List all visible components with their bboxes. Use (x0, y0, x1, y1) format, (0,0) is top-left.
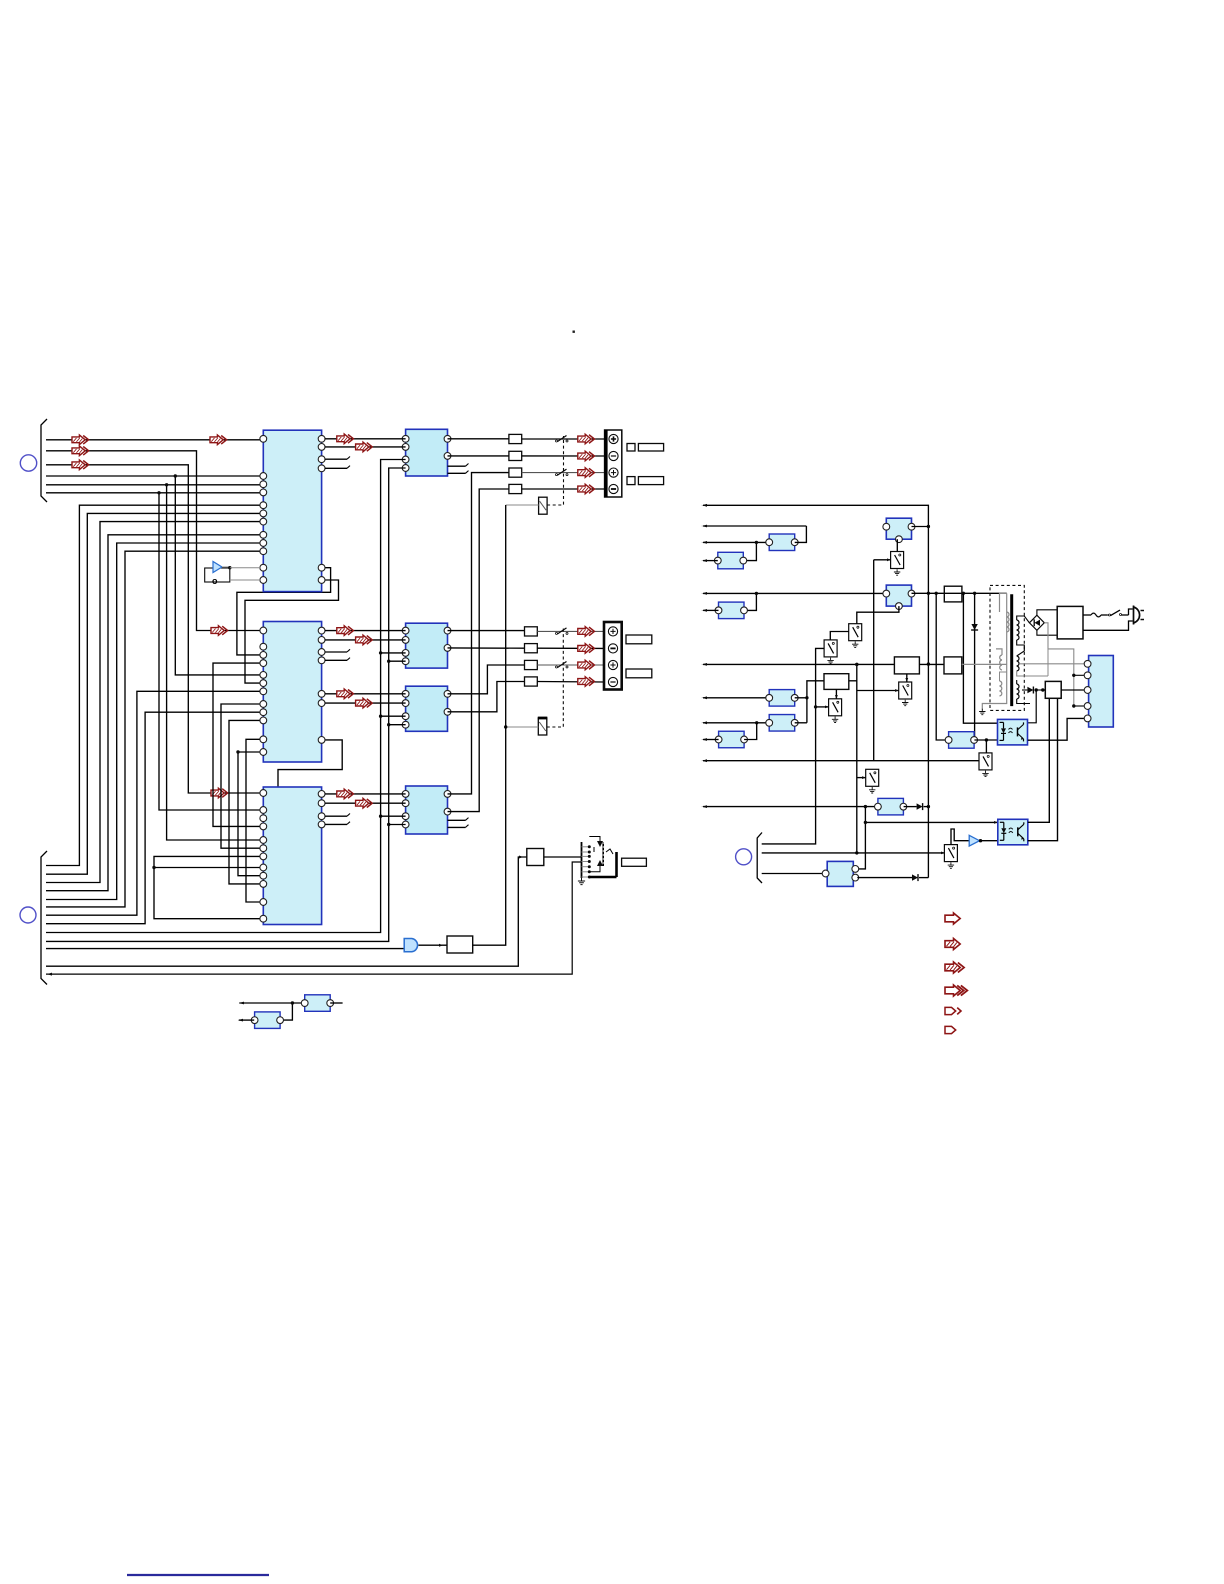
signal arrow a42 (356, 798, 373, 808)
mesh wire m1 (237, 568, 331, 655)
switch S1b (556, 469, 569, 476)
speaker terminal block J2 (604, 622, 622, 690)
bus wire n2 (46, 513, 263, 874)
transistor Q5 (829, 699, 842, 723)
mesh wire m10 (154, 856, 263, 918)
wire A3 out2 (448, 682, 525, 712)
power amp A4 (402, 786, 468, 834)
connector CN13 (715, 602, 747, 619)
IC U3 (260, 787, 325, 925)
wire FB24-term (537, 681, 604, 684)
mesh wire m8 (246, 739, 263, 902)
ferrite FB14 (509, 484, 522, 493)
signal arrow a12 (356, 442, 373, 452)
transistor Q6 (979, 753, 992, 777)
optocoupler PC1 (998, 719, 1028, 745)
wire CN16c r (744, 723, 757, 740)
signal arrow a32 (356, 698, 373, 708)
ps wire bw3 (762, 873, 826, 875)
ps wire p8 (Q6 base) (702, 759, 979, 762)
wire w2 (46, 451, 263, 631)
ps box F3 (824, 674, 849, 690)
wire A2 out1 (448, 630, 525, 632)
power amp A3 (402, 686, 451, 731)
IC U2 (260, 622, 325, 763)
driver box K1 (447, 936, 473, 953)
mesh wire m4 (213, 663, 263, 826)
signal arrow a21 (337, 626, 354, 636)
wire K1 out (473, 505, 506, 945)
wire w4 (46, 475, 263, 477)
net v857 (855, 664, 858, 854)
legend arrow type4 (945, 985, 967, 996)
wire U2-A3 ch2 (325, 702, 406, 704)
mesh wire m7 (236, 750, 263, 875)
svg-text:o: o (212, 576, 218, 586)
wire w6 (46, 492, 263, 494)
wire L1 stub (238, 1019, 254, 1022)
wire BD1-filter bot (1037, 630, 1057, 635)
signal arrow IC2 in (211, 626, 228, 636)
wire CN14 b-Q1 (896, 539, 898, 551)
wire L2-L1 (280, 1001, 294, 1020)
wire PC2-reg1 (1028, 698, 1050, 822)
wire w6 branch (157, 491, 263, 810)
wire FB12-term (522, 455, 605, 457)
wire CN17-O1 (974, 739, 997, 741)
wire U2-A2 ch1 (325, 630, 406, 632)
relay RY2 dashes (547, 628, 564, 727)
page dot (573, 331, 575, 333)
wire w1 (46, 439, 263, 441)
diode D4 (1022, 687, 1045, 694)
wire w5 (46, 484, 263, 486)
transistor Q1 (891, 552, 904, 576)
ferrite FB11 (509, 434, 522, 443)
legend arrow type5 (945, 1007, 961, 1014)
transformer core (1010, 594, 1013, 706)
net v865 (853, 807, 998, 869)
relay RY2 coil wire (504, 725, 538, 728)
wire Q1 base (874, 558, 891, 561)
bus wire n3 (46, 522, 263, 883)
connector CN20 (5pin) (1084, 656, 1113, 728)
input bus bracket CN1 (41, 419, 47, 502)
signal arrow a41 (337, 789, 354, 799)
power switch SW1 (1107, 610, 1129, 616)
wire CN15r-Q6 junction (985, 738, 988, 753)
wire BD1-filter top (1037, 610, 1057, 615)
wire fuse F1 (1083, 613, 1107, 617)
wire CN16 r (795, 681, 824, 723)
wire F3 r (849, 663, 859, 681)
transistor Q8 (866, 769, 879, 793)
net v963 (963, 593, 999, 723)
connector CN19 (4pin) (822, 861, 859, 886)
wire AND out (418, 944, 447, 947)
wire Q5 base (814, 705, 829, 708)
speaker arrow t13 (578, 468, 595, 478)
power amp A1 (402, 429, 468, 476)
wire Q4 base (857, 689, 899, 692)
transistor Q2 (849, 624, 862, 648)
relay RY1 dashes (547, 436, 563, 505)
connector CN12 (714, 552, 746, 569)
noise filter box NF1 (1057, 606, 1083, 639)
signal arrow w3 (72, 460, 89, 470)
wire Q2 base (830, 632, 848, 640)
ps wire p7 (702, 696, 769, 699)
speaker arrow t14 (578, 484, 595, 494)
speaker terminal block J1 (605, 430, 622, 497)
speaker arrow t12 (578, 451, 595, 461)
ps box F1 (894, 657, 919, 674)
mesh wire m2 (245, 580, 339, 683)
wire FB22-term (537, 647, 604, 649)
connector CN11 (766, 534, 798, 551)
IC U1 nc stubs (325, 457, 350, 469)
wire FB13-term (522, 472, 605, 474)
footer rule (127, 1574, 269, 1576)
ps wire p2 (702, 525, 807, 528)
connector CN17 (945, 732, 977, 749)
wire w966 (46, 856, 527, 967)
IC U2 nc stubs (325, 649, 350, 660)
wire PC2-reg2 (1028, 698, 1058, 840)
ps box F0 (944, 586, 962, 602)
speaker arrow t21 (578, 627, 595, 637)
ferrite FB13 (509, 468, 522, 477)
connector CN16c (715, 731, 747, 748)
off-page connector circle B (20, 907, 36, 923)
legend arrow type3 (945, 962, 964, 973)
wire AND in1 (46, 948, 404, 950)
ps wire p6 (702, 663, 895, 666)
mesh wire m5 (221, 704, 263, 848)
ps wire p5 (702, 592, 886, 595)
wire CN15 b (857, 606, 899, 624)
ferrite FB21 (525, 627, 538, 636)
wire D4-PC1 (1028, 690, 1036, 723)
link block L1 (251, 1012, 283, 1029)
power amp A2 (402, 623, 451, 668)
wire link1 (239, 1002, 305, 1005)
wire B3 drop (744, 592, 758, 611)
wire A4 out1 (448, 473, 509, 794)
wire CN19 rb + diode D3 (857, 874, 928, 881)
ferrite FB22 (525, 644, 538, 653)
terminal J1 labels (627, 444, 664, 485)
wire PC1 pin5 (1028, 717, 1088, 740)
signal arrow w1b (210, 435, 227, 445)
wire Q8 base (857, 776, 866, 779)
link block L2 (301, 995, 333, 1012)
driver box K2 (527, 849, 544, 866)
wire A1 out1 (448, 438, 509, 440)
net vB (936, 593, 948, 740)
connector CN18 (875, 798, 907, 815)
wire K2-jack (544, 856, 582, 858)
wire CN11 l drop (745, 541, 759, 561)
transistor Q3 (824, 640, 837, 664)
wire U1-A1 ch2 (325, 446, 406, 448)
buffer B2 (969, 835, 998, 846)
speaker arrow t24 (578, 677, 595, 687)
ps bus bracket CN3 (757, 833, 762, 884)
bus wire n4 (46, 535, 263, 891)
ferrite FB23 (525, 660, 538, 669)
off-page connector circle C (736, 849, 752, 865)
wire VR1-CN20p3 (1061, 689, 1088, 692)
wire w4 branch (174, 474, 264, 675)
wire A3 out1 (448, 665, 525, 694)
IC U1 (preamp/DSP) (260, 430, 325, 591)
jack label box (622, 858, 647, 866)
ac plug P1 (1083, 606, 1144, 631)
wire CN16c l (702, 738, 719, 741)
transistor Q4 (899, 682, 912, 706)
switch S2a (556, 628, 569, 635)
legend arrow type1 (945, 913, 960, 924)
signal arrow w2 (72, 446, 89, 456)
wire L2 stub (330, 1002, 342, 1004)
speaker arrow t22 (578, 644, 595, 654)
headphone jack JK1 (578, 837, 617, 885)
rail V2 (46, 468, 406, 941)
wire CN18 r + diode D2 (904, 803, 929, 810)
mesh wire m6 (229, 720, 263, 884)
ps wire bw2 (762, 852, 945, 855)
ferrite FB12 (509, 451, 522, 460)
wire FB21-term (537, 630, 604, 632)
ps box F2 (944, 657, 962, 674)
wire Q3 base (762, 648, 824, 844)
mesh wire m11 (152, 866, 263, 869)
connector CN15 (3pin) (883, 585, 915, 609)
wire F1-F2 (919, 663, 944, 665)
wire w3 (46, 465, 263, 793)
wire A1 out2 (448, 455, 509, 457)
wire FB23-term (537, 664, 604, 666)
speaker arrow t23 (578, 660, 595, 670)
speaker arrow t11 (578, 434, 595, 444)
transformer dashed box (990, 585, 1024, 710)
off-page connector circle A (20, 455, 36, 471)
wire gray bd-right (1044, 623, 1074, 706)
wire U3-A4 ch1 (325, 793, 406, 795)
relay RY1 (539, 497, 548, 514)
transistor Q7 (944, 845, 957, 869)
net v974 + diode D5 (971, 593, 978, 736)
wire A4 out2 (448, 489, 509, 812)
terminal J2 labels (626, 635, 652, 678)
signal arrow a11 (337, 434, 354, 444)
wire w974 (46, 862, 582, 976)
mesh wire m3 (263, 740, 342, 818)
wire U2-A2 ch2 (325, 639, 406, 641)
signal arrow a31 (337, 689, 354, 699)
relay RY1 coil wire (506, 504, 539, 506)
signal arrow a22 (356, 635, 373, 645)
legend arrow type2 (945, 938, 960, 949)
ps wire p3 (702, 541, 769, 544)
net v873 (873, 560, 875, 761)
wire gray sec1-cn20 (1020, 662, 1088, 665)
transformer secondary windings (1017, 616, 1048, 704)
transformer primary winding (979, 593, 1009, 714)
optocoupler PC2 (998, 819, 1028, 845)
wire CN12 l (702, 559, 718, 562)
wire F2 out (962, 663, 1007, 665)
wire U1-A1 ch1 (325, 438, 406, 440)
signal arrow w1a (72, 435, 89, 445)
wire A2 out2 (448, 647, 525, 649)
AND gate G1 (404, 939, 417, 952)
ps wire p1 (702, 504, 930, 878)
bus wire n1 (46, 505, 263, 865)
bus wire n8 (46, 712, 263, 924)
wire gray v1074 (1072, 674, 1088, 708)
wire FB14-term (522, 488, 605, 490)
wire CN14 r (912, 526, 929, 528)
switch S2b (556, 662, 569, 669)
bridge rectifier BD1 (1029, 615, 1044, 630)
ps wire p9 (702, 805, 878, 808)
rail V1 (46, 460, 406, 933)
ferrite FB24 (525, 677, 538, 686)
wire Q7-buf (951, 829, 969, 845)
legend arrow type6 (945, 1026, 956, 1033)
signal arrow IC3 in (211, 788, 228, 798)
connector CN16 (766, 690, 798, 707)
wire F1 b (905, 674, 908, 682)
wire CN11 r (795, 526, 807, 542)
wire U3-A4 ch2 (325, 802, 406, 804)
wire CN13 l (702, 609, 719, 612)
wire F3 b (835, 689, 838, 699)
bus wire n6 (46, 551, 263, 907)
connector CN16b (766, 715, 798, 732)
relay RY2 (538, 718, 548, 735)
wire w5 branch (165, 483, 263, 840)
regulator box VR1 (1045, 681, 1061, 698)
switch S1a (556, 436, 569, 443)
buffer B1 (205, 562, 260, 587)
wire FB11-term (522, 438, 605, 440)
wire CN16b r (795, 722, 807, 724)
IC U3 nc stubs (325, 814, 350, 825)
bus wire n7 (46, 691, 263, 915)
ps wire p7b (702, 721, 769, 724)
connector CN14 (3pin) (883, 518, 915, 542)
wire U2-A3 ch1 (325, 693, 406, 695)
wire CN15 r (912, 592, 1007, 595)
bus wire n5 (46, 543, 263, 900)
output bus bracket CN2 (41, 851, 47, 985)
